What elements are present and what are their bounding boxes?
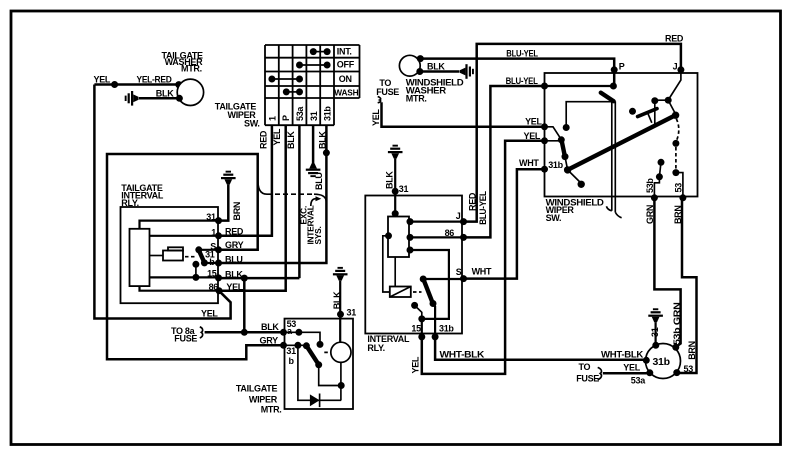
wire YEL feed loop (fuse YEL riser to relay pin 86) <box>94 85 230 319</box>
wire pin S GRY <box>199 240 244 253</box>
svg-text:BLK: BLK <box>318 131 328 149</box>
label interval rly <box>367 334 410 353</box>
label tailgate interval rly <box>121 183 164 208</box>
svg-text:53a: 53a <box>631 376 646 386</box>
wire pin 15 BLK <box>150 269 244 282</box>
mechanical link dashes to motor <box>324 351 332 353</box>
svg-text:FUSE: FUSE <box>376 87 399 97</box>
ground G3 windshield washer <box>460 64 474 79</box>
svg-text:P: P <box>281 115 291 121</box>
svg-text:BLU: BLU <box>314 172 324 190</box>
wiper arm link lines <box>606 101 621 217</box>
svg-text:YEL: YEL <box>94 75 111 85</box>
wire RED column 1 to relay pin 1 <box>219 125 272 236</box>
svg-text:31b: 31b <box>548 160 563 170</box>
svg-text:53a: 53a <box>295 106 305 121</box>
diode D1 and bottom wire <box>298 345 341 407</box>
node P pin <box>611 62 625 74</box>
node WHT 31b pin <box>541 160 564 173</box>
wire pin 31b WHT-BLK to wiper motor <box>432 304 647 360</box>
ground G5 wiper motor 31 <box>648 308 663 322</box>
svg-text:MTR.: MTR. <box>181 64 202 74</box>
svg-text:BRN: BRN <box>673 205 683 224</box>
svg-text:53: 53 <box>673 183 683 193</box>
wire RED from J to windshield switch J <box>464 33 684 221</box>
svg-text:ON: ON <box>339 74 352 84</box>
wire motor bottom junction <box>338 362 345 400</box>
svg-text:WHT-BLK: WHT-BLK <box>440 350 485 360</box>
switch box S2 windshield wiper sw <box>545 73 698 197</box>
contact 15 interval relay <box>411 302 422 319</box>
table row OFF contacts 53a-31b <box>296 62 331 69</box>
label to fuse top <box>376 78 399 103</box>
svg-text:J: J <box>673 62 678 72</box>
wire relay third lead to 15 contact <box>407 247 449 319</box>
svg-text:GRN: GRN <box>645 205 655 224</box>
relay K2 body <box>388 217 409 258</box>
svg-text:BLK: BLK <box>156 89 174 99</box>
svg-text:53b GRN: 53b GRN <box>672 303 682 346</box>
svg-text:b: b <box>209 257 215 267</box>
wire pin 31 BRN to ground <box>140 185 243 229</box>
wire BLK pin15 net to fuse and col53a <box>219 275 300 333</box>
svg-text:86: 86 <box>209 282 219 292</box>
label to 8a fuse <box>171 326 203 344</box>
table row WASH contacts P-53a <box>283 88 303 95</box>
contact 53b chain <box>645 159 665 202</box>
table row INT contacts 31-31b <box>310 48 331 55</box>
svg-text:FUSE: FUSE <box>174 334 197 344</box>
svg-text:MTR.: MTR. <box>261 404 282 414</box>
svg-text:BLK: BLK <box>286 131 296 149</box>
wire pin 31 BLK to ground <box>384 159 408 218</box>
svg-text:YEL: YEL <box>410 356 420 373</box>
svg-text:RED: RED <box>258 130 268 149</box>
motor M2 circle <box>331 342 351 362</box>
svg-text:GRY: GRY <box>225 240 244 250</box>
svg-text:YEL: YEL <box>272 128 282 145</box>
svg-text:BLK: BLK <box>384 171 394 189</box>
svg-text:BLU: BLU <box>225 255 243 265</box>
node J pin <box>673 62 685 74</box>
svg-text:YEL: YEL <box>524 131 541 141</box>
wire BLK column 53a to relay pin 15 line <box>298 125 301 278</box>
svg-text:SW.: SW. <box>546 213 562 223</box>
relay K1 tailgate interval rly box <box>121 207 219 303</box>
wire motor 31 ground stem <box>332 281 356 342</box>
svg-text:TO: TO <box>579 362 591 372</box>
svg-text:1: 1 <box>211 227 216 237</box>
svg-text:b: b <box>289 356 295 366</box>
svg-text:YEL: YEL <box>226 282 243 292</box>
svg-text:RLY.: RLY. <box>367 343 384 353</box>
wire BLK to 8a fuse and tailgate motor 53a <box>205 322 284 346</box>
svg-text:BLK: BLK <box>332 291 342 309</box>
mechanical link dashes <box>185 256 197 258</box>
motor M3 windshield washer mtr <box>399 55 420 76</box>
svg-text:OFF: OFF <box>337 60 355 70</box>
contact P bold <box>601 93 614 102</box>
svg-text:INT.: INT. <box>337 47 352 57</box>
svg-text:J: J <box>456 211 461 221</box>
svg-text:TAILGATE: TAILGATE <box>236 384 278 394</box>
svg-text:53b: 53b <box>645 178 655 193</box>
wire pin 31b BLU <box>204 250 242 268</box>
pin tags 1 P 53a 31 31b <box>267 106 332 121</box>
node 53 pin motor <box>673 364 693 376</box>
wire BLU-YEL washer motor to P <box>417 48 614 86</box>
motor M4 windshield wiper motor <box>646 344 681 379</box>
ground G6 tailgate motor 31 <box>333 267 348 281</box>
wire YEL-RED to tailgate washer motor <box>94 83 179 86</box>
wire pin 1 RED <box>150 226 244 239</box>
wire pin 86 <box>407 228 468 241</box>
label exc interval sys with arrow <box>298 196 323 244</box>
svg-text:RED: RED <box>225 226 244 236</box>
coil K2 <box>390 287 411 298</box>
svg-text:YEL: YEL <box>525 117 542 127</box>
label windshield wiper sw <box>546 198 605 224</box>
ground G4 interval rly 31 <box>388 145 403 159</box>
svg-text:BLU-YEL: BLU-YEL <box>506 48 538 58</box>
wire coil loop <box>383 232 395 292</box>
wire pin 15 YEL loop to windshield switch <box>410 141 544 374</box>
switch lever tailgate relay <box>195 246 208 266</box>
wire YEL fuse to windshield switch <box>371 102 545 168</box>
contact 53 chain with dashed travel arc <box>672 119 686 202</box>
svg-text:BLU-YEL: BLU-YEL <box>506 76 539 86</box>
svg-text:BLK: BLK <box>261 322 279 332</box>
svg-text:YEL: YEL <box>623 363 640 373</box>
contact YEL pins and wiper <box>541 102 612 170</box>
svg-text:RED: RED <box>467 192 477 211</box>
svg-text:31: 31 <box>347 308 357 318</box>
svg-text:YEL: YEL <box>201 309 218 319</box>
wire park switch to motor bottom <box>319 365 342 386</box>
wire GRY loop around tailgate interval relay (pin S to tailgate wiper mtr) <box>107 154 284 359</box>
wire pin S WHT <box>423 267 492 283</box>
node 53b pin motor <box>672 344 679 351</box>
svg-text:S: S <box>456 267 462 277</box>
wire BLK washer motor ground lead <box>139 97 179 100</box>
label tailgate wiper mtr <box>236 384 282 415</box>
svg-text:SYS.: SYS. <box>313 226 323 244</box>
wire YEL column P to relay pin 86 <box>219 125 286 291</box>
wire column 31 to ground <box>312 125 315 163</box>
svg-text:86: 86 <box>445 228 455 238</box>
wire motor 31 to ground <box>650 322 660 349</box>
label to fuse bottom <box>576 362 601 384</box>
wire pin 86 YEL <box>140 282 244 319</box>
node YEL junction <box>111 81 118 88</box>
contact 15 and riser <box>192 261 199 278</box>
ground G2 table column 31 <box>306 163 321 177</box>
svg-text:BLK: BLK <box>427 61 445 71</box>
coil tailgate relay <box>150 247 184 260</box>
svg-text:P: P <box>619 62 625 72</box>
svg-text:MTR.: MTR. <box>406 93 427 103</box>
svg-text:15: 15 <box>207 269 217 279</box>
switch table S1 tailgate wiper sw <box>265 45 360 125</box>
svg-text:1: 1 <box>267 116 277 121</box>
wire YEL 53a from fuse <box>603 363 654 386</box>
relay K1 body <box>130 229 150 286</box>
svg-text:53: 53 <box>684 364 694 374</box>
wire BLK washer motor ground <box>416 61 459 75</box>
wire WHT S to windshield switch <box>464 169 545 278</box>
svg-text:GRY: GRY <box>260 336 279 346</box>
node BLU junction <box>323 149 330 156</box>
wire dashed bypass exc. interval sys. <box>258 178 327 203</box>
wire pin J <box>407 211 468 225</box>
switch lever tailgate motor park switch <box>303 342 322 368</box>
ground G1 tailgate washer <box>125 91 139 106</box>
svg-text:31: 31 <box>309 111 319 121</box>
wire GRN 53b to wiper motor <box>645 198 682 347</box>
svg-text:31: 31 <box>286 346 296 356</box>
table row ON contacts 1-53a <box>268 76 303 83</box>
pin 53a tailgate motor <box>280 319 324 348</box>
wire BLU-YEL from 86 to windshield switch <box>464 76 545 238</box>
contact parked <box>568 170 585 188</box>
svg-text:WHT: WHT <box>472 267 492 277</box>
svg-text:31b: 31b <box>323 106 333 121</box>
ground G7 pin 31 <box>221 171 236 185</box>
svg-text:WHT: WHT <box>519 158 539 168</box>
svg-text:31b: 31b <box>653 356 670 368</box>
svg-text:31b: 31b <box>439 324 454 334</box>
svg-text:BLU-YEL: BLU-YEL <box>478 191 488 225</box>
svg-text:WASH: WASH <box>334 88 358 98</box>
contact INT bar <box>629 108 657 123</box>
svg-text:FUSE: FUSE <box>576 374 599 384</box>
wire BLK/BLU column 31b to relay pin 31b <box>219 125 327 263</box>
motor box M2 tailgate wiper mtr <box>285 319 354 409</box>
svg-text:31: 31 <box>399 184 409 194</box>
wire BRN 53 to wiper motor <box>673 198 697 373</box>
wire BLU-YEL inside to P contact <box>541 83 617 90</box>
svg-text:YEL: YEL <box>371 109 381 126</box>
svg-text:31: 31 <box>206 212 216 222</box>
svg-text:YEL-RED: YEL-RED <box>137 75 173 85</box>
svg-text:BRN: BRN <box>687 341 697 360</box>
motor M1 tailgate washer mtr <box>177 79 203 105</box>
switch lever interval relay <box>420 276 437 308</box>
node WHT-BLK pin 31b <box>643 357 650 364</box>
svg-text:BRN: BRN <box>232 202 242 221</box>
pin 31b tailgate motor <box>280 342 306 366</box>
svg-text:15: 15 <box>411 323 421 333</box>
svg-text:SW.: SW. <box>244 119 260 129</box>
wire J inside <box>651 73 681 126</box>
switch main lever windshield <box>564 112 679 174</box>
svg-text:RED: RED <box>665 33 684 43</box>
svg-text:WHT-BLK: WHT-BLK <box>601 350 644 360</box>
relay K2 interval rly box <box>365 196 462 334</box>
svg-text:31: 31 <box>650 327 660 337</box>
mechanical link dashes <box>413 291 422 293</box>
label tailgate wiper sw <box>215 101 260 128</box>
svg-text:WIPER: WIPER <box>249 394 278 404</box>
